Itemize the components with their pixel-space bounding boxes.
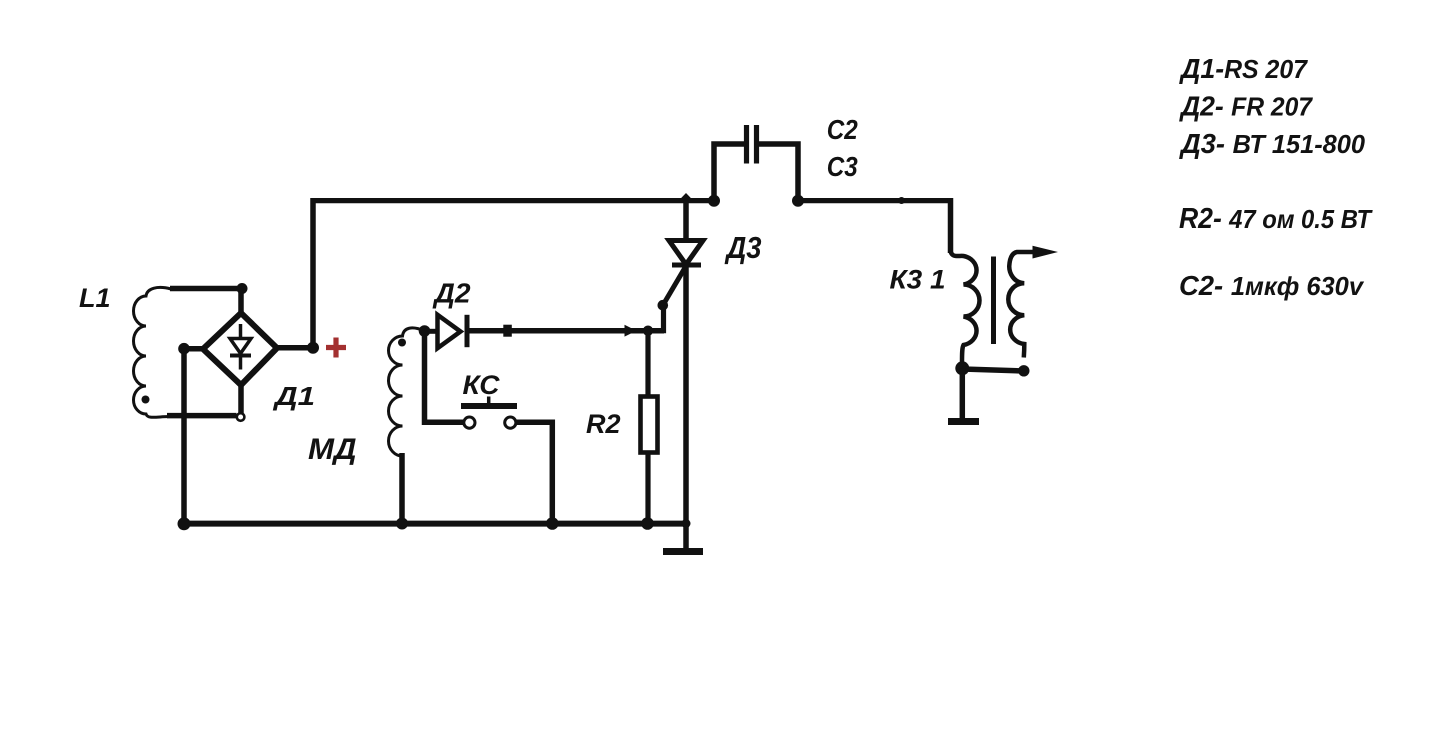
junction cross mark on D2 wire: [503, 325, 512, 337]
resistor R2 wire top: [645, 331, 650, 397]
L1 bottom terminal dot: [142, 396, 150, 404]
svg-text:Д3- ВТ 151-800: Д3- ВТ 151-800: [1179, 128, 1365, 159]
wire button right to rail: [516, 422, 552, 523]
plus sign red: [326, 338, 346, 358]
node D2 anode / MD coil top: [419, 325, 431, 337]
svg-text:R2- 47 ом 0.5 ВТ: R2- 47 ом 0.5 ВТ: [1179, 203, 1373, 235]
node button drop: [546, 517, 559, 530]
wire minus node down to bottom rail: [181, 349, 187, 524]
wire corner drop to ignition primary: [948, 198, 954, 253]
wire MD coil bottom to rail: [399, 453, 405, 524]
node C2 right: [792, 195, 804, 207]
node thyristor rail junction: [682, 519, 691, 528]
wire bridge left to minus node: [182, 346, 203, 352]
diode inside bridge D1: [230, 324, 251, 370]
thyristor gate diagonal: [663, 266, 686, 305]
ground under thyristor: [663, 524, 703, 552]
inductor L1: [133, 287, 171, 417]
node MD bottom: [396, 518, 408, 530]
node R2 top: [643, 326, 653, 336]
wire bridge bottom stub: [238, 385, 244, 413]
ignition coil K3 1 secondary winding: [1008, 252, 1040, 358]
wire bridge right to plus node: [277, 345, 313, 351]
ignition coil K3 1 primary winding: [951, 251, 980, 362]
wire rail C2 to ignition coil corner: [798, 198, 951, 203]
wire bridge top stub: [238, 289, 244, 317]
wire gate down to D2 wire: [655, 305, 664, 331]
inductor MD coil: [389, 328, 425, 456]
wire C2 left leg: [714, 144, 744, 201]
button KC bar: [461, 403, 517, 409]
node C2 left: [708, 195, 720, 207]
MD coil terminal dot: [398, 339, 406, 347]
wire plus riser: [310, 198, 316, 348]
node bridge minus: [178, 343, 190, 355]
node plus output: [307, 342, 319, 354]
thyristor D3: [669, 201, 703, 524]
resistor R2 wire bottom: [645, 452, 650, 524]
node rail left corner: [178, 517, 191, 530]
wire L1 top to bridge top: [170, 286, 242, 292]
node small on rail: [898, 197, 905, 204]
wire D2 cathode to gate bend: [466, 328, 664, 334]
svg-text:Д1: Д1: [273, 383, 315, 411]
button KC contact right: [505, 417, 516, 428]
svg-text:Д1-RS 207: Д1-RS 207: [1179, 53, 1308, 84]
button KC stem: [487, 397, 491, 405]
node R2 bottom: [641, 517, 654, 530]
junction arrow at thyristor anode: [679, 193, 694, 201]
svg-text:С2: С2: [827, 114, 858, 145]
node ignition secondary bottom: [1018, 365, 1029, 376]
svg-text:С2- 1мкф 630v: С2- 1мкф 630v: [1179, 270, 1364, 301]
bridge rectifier D1 diamond: [203, 313, 277, 385]
arrow mark on D2 wire: [625, 325, 637, 337]
wire D2 anode stub: [425, 329, 438, 334]
parts list text: [1179, 53, 1373, 301]
wire top rail: [311, 198, 715, 203]
open junction circle at bridge bottom: [237, 413, 245, 421]
svg-text:С3: С3: [827, 151, 858, 182]
high voltage arrow: [1033, 246, 1059, 259]
svg-text:Д3: Д3: [724, 230, 762, 265]
svg-text:МД: МД: [308, 433, 357, 466]
svg-text:КС: КС: [463, 370, 501, 400]
node ignition primary bottom: [955, 361, 969, 375]
button KC contact left: [464, 417, 475, 428]
wire bottom rail: [184, 521, 686, 527]
wire ignition bottom link: [962, 369, 1024, 371]
resistor R2 body: [641, 397, 658, 453]
svg-text:R2: R2: [586, 409, 621, 439]
svg-text:L1: L1: [79, 283, 111, 313]
ignition coil core: [991, 257, 996, 345]
node gate: [658, 300, 669, 311]
capacitor C2 plates: [747, 125, 757, 164]
wire L1 bottom to bridge bottom: [167, 413, 237, 419]
wire C2 right leg: [759, 144, 798, 201]
svg-text:Д2: Д2: [432, 278, 471, 309]
wire D2 anode down and to button: [425, 331, 464, 422]
node L1/bridge top junction: [237, 283, 248, 294]
svg-text:К3 1: К3 1: [890, 265, 946, 295]
svg-text:Д2- FR 207: Д2- FR 207: [1179, 91, 1313, 122]
diode D2: [438, 315, 468, 348]
ground under ignition coil: [948, 368, 979, 421]
